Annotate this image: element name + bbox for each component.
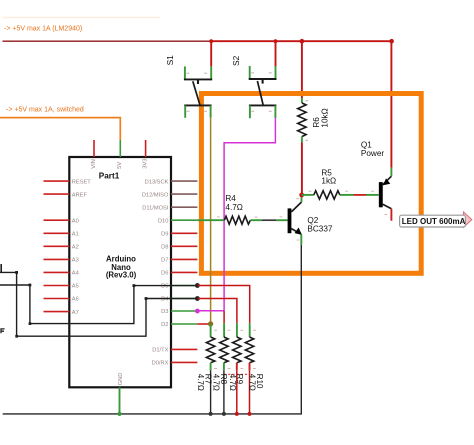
wire: black R8 to gnd bus bbox=[223, 370, 225, 414]
svg-text:3V3: 3V3 bbox=[143, 158, 149, 168]
transistor Q2 BC337 bbox=[290, 195, 302, 245]
svg-text:A0: A0 bbox=[72, 218, 79, 224]
switch S2 bbox=[249, 66, 277, 118]
svg-text:4.7Ω: 4.7Ω bbox=[248, 374, 257, 391]
Part1 left pins RESET AREF A0-A7 bbox=[44, 181, 70, 312]
svg-text:-> +5V max 1A (LM2940): -> +5V max 1A (LM2940) bbox=[4, 26, 82, 33]
svg-text:D3: D3 bbox=[161, 309, 168, 315]
svg-text:D7: D7 bbox=[161, 258, 168, 264]
svg-text:D11/MOSI: D11/MOSI bbox=[142, 205, 169, 211]
wire: magenta D3 stub to corner bbox=[197, 310, 224, 312]
resistor R8 bbox=[220, 323, 228, 370]
resistor R4 bbox=[217, 216, 282, 224]
svg-text:S1: S1 bbox=[165, 55, 175, 66]
junction node R9 bus bbox=[235, 412, 239, 416]
junction node bus/S2 bbox=[274, 39, 278, 43]
resistor R10 bbox=[245, 323, 253, 370]
wire: red segment R5 to Q1 bbox=[354, 194, 366, 196]
svg-text:D9: D9 bbox=[161, 232, 168, 238]
svg-text:D2: D2 bbox=[161, 322, 168, 328]
svg-text:A5: A5 bbox=[72, 284, 79, 290]
wire: red drop bus to Q1 emitter bbox=[390, 41, 392, 167]
Part1 top pins VIN 5V 3V3 bbox=[94, 140, 146, 157]
svg-text:A2: A2 bbox=[72, 245, 79, 251]
svg-text:(Rev3.0): (Rev3.0) bbox=[106, 271, 137, 280]
svg-text:4.7Ω: 4.7Ω bbox=[212, 374, 221, 391]
junction node R7 bus bbox=[209, 412, 213, 416]
node D5 terminal bbox=[195, 283, 200, 288]
svg-text:LED OUT 600mA: LED OUT 600mA bbox=[402, 217, 466, 226]
svg-text:A6: A6 bbox=[72, 297, 79, 303]
pin labels left bbox=[72, 179, 91, 315]
transistor Q1 Power PNP bbox=[371, 168, 391, 221]
svg-text:D6: D6 bbox=[161, 271, 168, 277]
orange highlight rectangle bbox=[201, 94, 421, 274]
svg-text:D10: D10 bbox=[158, 218, 168, 224]
svg-text:D5: D5 bbox=[161, 284, 168, 290]
junction node R8 bus bbox=[222, 412, 226, 416]
Part1 right pins D13/SCK D12/MISO D11/MOSI maroon bbox=[171, 181, 197, 207]
svg-text:A7: A7 bbox=[72, 310, 79, 316]
svg-text:D4: D4 bbox=[161, 297, 168, 303]
wire: red drop bus to S2 bbox=[275, 41, 277, 66]
resistor R5 1k bbox=[309, 191, 348, 199]
wire: red D5 to R10 bbox=[197, 286, 249, 324]
svg-text:AREF: AREF bbox=[72, 192, 88, 198]
junction node GND pin bbox=[117, 412, 121, 416]
Arduino Nano Part1 body bbox=[69, 157, 171, 387]
svg-text:Part1: Part1 bbox=[99, 172, 120, 181]
wire: green R5 right bbox=[340, 194, 354, 196]
svg-text:A4: A4 bbox=[72, 271, 79, 277]
wire: red D3 corner to R8 bbox=[223, 311, 225, 323]
Part1 right pins D9-D6 D1/TX D0/RX red bbox=[171, 233, 197, 362]
junction node bus/R6 bbox=[300, 39, 305, 44]
wire: red R9 to gnd bus bbox=[236, 370, 238, 414]
resistor R9 bbox=[233, 323, 241, 370]
resistor R7 bbox=[206, 324, 214, 371]
wire: green node to R5 bbox=[302, 194, 314, 196]
svg-text:Power: Power bbox=[361, 149, 384, 158]
wire: red drop bus to S1 bbox=[210, 41, 212, 66]
svg-text:BC337: BC337 bbox=[307, 224, 332, 233]
resistor pin marks bbox=[214, 330, 256, 368]
svg-text:R4: R4 bbox=[225, 194, 236, 203]
svg-text:10kΩ: 10kΩ bbox=[320, 108, 329, 127]
faint orange ghost wire top bbox=[3, 17, 160, 19]
wire: black W1 offscreen to D5 bbox=[0, 285, 197, 324]
wire: red +5V bus right segment bbox=[211, 40, 391, 42]
wire: red drop bus to R6 bbox=[301, 41, 303, 98]
net flag LED OUT 600mA bbox=[400, 212, 472, 227]
wire: red R6 to collector node bbox=[301, 143, 303, 195]
svg-text:VIN: VIN bbox=[91, 159, 97, 169]
wire: dark red +5V bus left segment bbox=[3, 40, 212, 42]
wire: green Q2 base stub bbox=[276, 219, 288, 221]
svg-text:5V: 5V bbox=[117, 162, 123, 169]
ratsnest dashed R8-R10 bbox=[224, 373, 250, 375]
junction node D2/S1/R7 olive bbox=[208, 321, 213, 326]
orange wire to 5V pin bbox=[0, 118, 120, 140]
label F clipped bbox=[1, 329, 5, 333]
resistor R6 10k bbox=[298, 98, 308, 143]
wire: black R7 to gnd bus bbox=[210, 370, 212, 414]
wire: red D4 to R9 bbox=[197, 299, 237, 324]
Part1 bottom pin GND bbox=[119, 387, 121, 414]
svg-text:S2: S2 bbox=[231, 55, 241, 66]
svg-text:D0/RX: D0/RX bbox=[152, 361, 169, 367]
wire: magenta S2 to D3 bbox=[224, 118, 275, 311]
junction node R10 bus bbox=[248, 412, 252, 416]
svg-text:RESET: RESET bbox=[72, 179, 91, 185]
svg-text:D13/SCK: D13/SCK bbox=[145, 179, 169, 185]
svg-text:A1: A1 bbox=[72, 232, 79, 238]
wire: olive S1 to D2 node bbox=[210, 118, 212, 324]
wire: black W2 offscreen to D4 bbox=[0, 272, 197, 336]
svg-text:4.7Ω: 4.7Ω bbox=[225, 203, 243, 212]
junction node bus/S1 bbox=[209, 39, 213, 43]
svg-text:1kΩ: 1kΩ bbox=[321, 177, 336, 186]
svg-text:GND: GND bbox=[118, 373, 124, 386]
svg-text:A3: A3 bbox=[72, 258, 79, 264]
wire: green R4 right stub bbox=[250, 219, 261, 221]
wire: red D2 stub to olive node bbox=[197, 323, 210, 325]
node D4 terminal bbox=[195, 296, 200, 301]
junction node collector R5 R6 bbox=[299, 193, 304, 198]
wire: red R10 to gnd bus bbox=[249, 370, 251, 414]
svg-text:D12/MISO: D12/MISO bbox=[142, 192, 169, 198]
pin labels right bbox=[142, 179, 169, 366]
wire: D10 green to R4 bbox=[197, 219, 224, 221]
wire: Q2 emitter to ground bus bbox=[3, 245, 302, 414]
svg-text:D8: D8 bbox=[161, 245, 168, 251]
Part1 right pins D10 D5 D4 D3 D2 green bbox=[171, 220, 197, 324]
junction node bus/Q1 bbox=[389, 39, 394, 44]
svg-text:-> +5V max 1A, switched: -> +5V max 1A, switched bbox=[6, 107, 84, 114]
wire: green to Q1 base bbox=[366, 194, 379, 196]
svg-text:4.7Ω: 4.7Ω bbox=[196, 374, 205, 391]
switch S1 bbox=[184, 66, 212, 117]
node D3 terminal magenta bbox=[195, 309, 200, 314]
wire: short stub at left edge above W2 bbox=[0, 264, 2, 272]
svg-text:D1/TX: D1/TX bbox=[152, 348, 168, 354]
svg-text:4.7Ω: 4.7Ω bbox=[228, 374, 237, 391]
wire: black segment R4 to Q2 bbox=[262, 219, 276, 221]
pin labels VIN 5V 3V3 bbox=[91, 158, 149, 168]
